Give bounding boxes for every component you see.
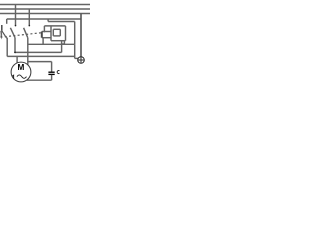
svg-text:M: M bbox=[17, 63, 24, 72]
